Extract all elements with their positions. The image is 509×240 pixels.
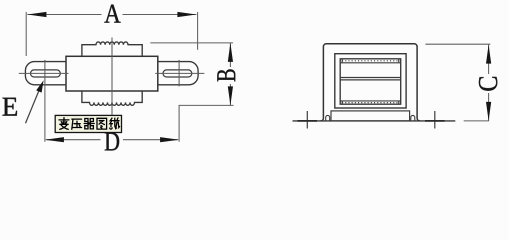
E leader arrow <box>36 80 43 92</box>
label E <box>3 98 18 116</box>
core rectangle (top view) <box>66 56 158 91</box>
label text 变压器图纸 (hand-drawn strokes) <box>59 118 120 130</box>
right hole center mark <box>434 111 436 129</box>
winding bottom outline with coil bumps <box>82 91 142 105</box>
right foot notch <box>411 115 415 121</box>
bobbin bottom lamination dashed band <box>342 102 400 104</box>
bobbin front rectangle <box>340 59 401 104</box>
label B <box>217 69 235 81</box>
dimension B extension line top <box>150 42 233 44</box>
dimension B line <box>229 43 231 67</box>
char 图 <box>97 118 107 129</box>
outer frame bracket <box>321 44 420 121</box>
dimension A arrow left <box>27 12 46 17</box>
left tab slot <box>31 70 61 77</box>
label A <box>104 5 120 23</box>
dimension B extension line bottom + dimension D extension right (stepped) <box>179 105 233 141</box>
dimension A extension line left <box>25 12 27 56</box>
right mounting tab <box>158 62 198 85</box>
dimension A line <box>27 14 101 16</box>
left hole center mark <box>306 111 308 129</box>
dimension D arrow right <box>160 137 179 142</box>
right tab slot <box>163 70 192 77</box>
E leader line <box>26 87 41 124</box>
char 纸 <box>110 118 120 129</box>
bobbin middle line 1 <box>340 77 401 79</box>
char 变 <box>59 118 69 130</box>
base plate <box>331 111 410 121</box>
dimension C extension line bottom <box>464 120 489 122</box>
label D <box>105 133 119 151</box>
bobbin top lamination dashed band <box>342 60 400 62</box>
dimension C extension line top <box>425 43 490 45</box>
dimension C arrow top <box>486 45 491 64</box>
left tab vertical center line <box>44 60 46 87</box>
bobbin bottom band line <box>340 100 401 102</box>
winding top outline with coil bumps <box>82 42 142 56</box>
left horizontal center line <box>19 72 69 74</box>
mounting flange line <box>293 120 456 122</box>
right horizontal center line <box>155 72 204 74</box>
inner window <box>335 54 406 108</box>
dimension A extension line right <box>197 12 199 50</box>
dimension C arrow bottom <box>486 102 491 121</box>
label C <box>479 77 497 91</box>
dimension B arrow top <box>228 43 233 62</box>
bobbin bottom band end ticks <box>341 101 343 104</box>
char 器 <box>84 119 94 129</box>
main vertical center line <box>111 38 113 115</box>
dimension D line <box>46 139 101 141</box>
dimension D arrow left <box>45 137 64 142</box>
dimension C line <box>488 45 490 74</box>
dimension A arrow right <box>177 12 196 17</box>
label box 变压器图纸 <box>55 115 121 132</box>
dimension D extension line left <box>44 87 46 142</box>
bobbin middle line 2 <box>340 79 401 81</box>
bobbin top band line <box>340 62 401 64</box>
right view (front) <box>293 44 492 129</box>
left mounting tab <box>25 62 66 85</box>
char 压 <box>72 119 82 129</box>
dimension B arrow bottom <box>228 86 233 105</box>
bobbin top band end ticks <box>341 59 343 62</box>
right tab vertical center line <box>178 60 180 87</box>
left foot notch <box>326 115 330 121</box>
